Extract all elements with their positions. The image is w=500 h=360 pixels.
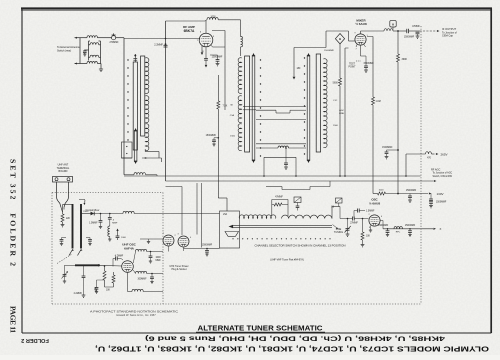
capacitor 1500MMF lower right [382, 147, 399, 159]
tube V6 OSC [369, 198, 380, 226]
capacitor UHF 3 [95, 280, 99, 294]
coil osc plate [133, 249, 163, 266]
svg-text:POINT: POINT [348, 67, 356, 69]
channel strip 1 slug arrow [133, 130, 135, 162]
label RF AMP 6BK7A [183, 25, 195, 33]
svg-text:1000: 1000 [210, 16, 216, 18]
tube V1 cathode ground [201, 46, 204, 55]
svg-text:47MMF: 47MMF [412, 26, 420, 28]
feedthrough 47MMF [412, 26, 420, 38]
svg-text:RF AGC: RF AGC [431, 168, 441, 171]
wire antenna vertical [79, 38, 81, 64]
tuned line bars [63, 200, 86, 249]
svg-text:Plug & Socket: Plug & Socket [171, 268, 186, 271]
channel strip 2 coil [238, 58, 242, 151]
feedthrough to heater [116, 229, 127, 241]
wire AGC to selector box [218, 198, 227, 211]
twin lead wires [57, 182, 69, 212]
svg-text:27MMF: 27MMF [350, 222, 358, 224]
capacitor 1500MMF mixer cathode [361, 56, 375, 72]
coil UHF mixer output [108, 226, 112, 241]
svg-text:10K: 10K [106, 290, 111, 292]
label UHF OSC 6AF4A [122, 242, 136, 250]
svg-text:1.5MMF: 1.5MMF [89, 222, 98, 224]
channel strip 3 coil [323, 59, 327, 148]
svg-text:½ 6AU8: ½ 6AU8 [369, 202, 380, 206]
capacitor 27MMF osc grid [340, 207, 369, 225]
coil L1B bottom [80, 62, 101, 64]
wire verticals to UHF tubes [166, 183, 202, 248]
label IF OUTPUT [442, 27, 457, 38]
wire mixer plate [361, 29, 399, 34]
tube V1 pin stub caps [204, 46, 208, 67]
svg-text:1500MMF: 1500MMF [436, 202, 447, 204]
labels near strip 3 [333, 100, 339, 127]
svg-text:1000: 1000 [156, 257, 162, 259]
capacitor 1500MMF osc out 2 [405, 225, 416, 237]
svg-text:CHANNEL SELECTOR SWITCH SHOWN: CHANNEL SELECTOR SWITCH SHOWN IN CHANNEL… [255, 243, 346, 247]
tube V4 UHF IF [162, 233, 176, 247]
svg-text:C1C: C1C [333, 100, 338, 102]
diode crystal mixer [82, 211, 124, 215]
stepped wire below strips [266, 181, 330, 190]
wire selector to osc [332, 207, 340, 228]
capacitor 1.5MMF [89, 214, 102, 229]
test point label [348, 61, 360, 69]
svg-text:Switch (rear): Switch (rear) [57, 50, 71, 53]
wire mixer grid link [211, 31, 226, 111]
capacitor 1500MMF uhf if [202, 245, 213, 256]
switch wafer box [122, 142, 133, 158]
wire osc top ground [140, 214, 163, 244]
resistor 1.0 meg [367, 37, 381, 182]
svg-text:7.5K: 7.5K [223, 106, 228, 108]
capacitor right of bars [86, 238, 92, 246]
junction dot grid [165, 38, 167, 40]
label to antenna switch [57, 46, 80, 52]
thick bus bar [75, 264, 99, 266]
svg-text:130V: 130V [437, 192, 444, 196]
svg-text:1500MMF: 1500MMF [405, 225, 416, 227]
svg-text:X: X [440, 227, 442, 231]
capacitor 300MMF [137, 273, 153, 284]
svg-text:TUNING: TUNING [334, 231, 343, 234]
wire osc output [380, 221, 441, 232]
tube V5 UHF IF [177, 234, 192, 248]
svg-text:TEST: TEST [349, 64, 355, 66]
label MIXER 1/2 6AU8 [355, 18, 367, 26]
tube V2 mixer [355, 34, 366, 45]
svg-text:6AF4A: 6AF4A [124, 246, 135, 250]
resistor 5600 mixer [333, 43, 342, 176]
wire AGC rail [166, 180, 437, 182]
feedthrough capacitor 270MMF [109, 33, 124, 44]
coil osc cathode [133, 270, 163, 274]
coil osc out [394, 227, 402, 234]
channel strip 2 coil form [245, 56, 250, 152]
coil plate choke [241, 37, 243, 57]
capacitor antenna + ground [83, 50, 89, 57]
shorting contacts [69, 249, 82, 256]
capacitor 1500MMF at 130V [406, 190, 417, 202]
svg-text:C99A Cap: C99A Cap [442, 35, 454, 38]
svg-text:300MMF: 300MMF [137, 278, 147, 280]
svg-text:1500MMF: 1500MMF [206, 135, 217, 137]
svg-text:L5A: L5A [223, 213, 228, 216]
svg-text:SET 352 FOLDER 2: SET 352 FOLDER 2 [9, 159, 18, 266]
bus pair below strips [243, 107, 256, 110]
UHF terminal strip [53, 177, 73, 183]
svg-text:BOARD: BOARD [59, 170, 68, 173]
svg-text:(UHF-VHF Tuner Part #94-97A): (UHF-VHF Tuner Part #94-97A) [270, 258, 304, 261]
svg-text:1500MMF: 1500MMF [406, 190, 417, 192]
svg-text:1000: 1000 [379, 190, 385, 192]
capacitor 1500MMF AGC [206, 135, 219, 146]
ladder wires between strips [256, 107, 306, 177]
label RF AGC [431, 168, 453, 178]
coil mixer link [124, 173, 157, 176]
wire mixer box [326, 31, 355, 48]
svg-text:RFC: RFC [396, 232, 401, 234]
svg-text:2.2MMF: 2.2MMF [74, 293, 83, 295]
capacitor 2.2MMF on grid line [154, 43, 167, 47]
svg-text:22K: 22K [66, 218, 71, 220]
channel strip 1 coil [145, 58, 149, 151]
channel strip 1 trimmer [133, 54, 137, 62]
selector top risers [272, 200, 288, 217]
capacitor pair 1500MMF below 130V [429, 194, 447, 208]
variable capacitor fine tuning [345, 218, 351, 237]
trimmer box C osc [331, 198, 342, 209]
resistor 10K osc [361, 218, 371, 247]
IF output arrow [420, 30, 440, 32]
svg-text:ALTERNATE TUNER SCHEMATIC: ALTERNATE TUNER SCHEMATIC [198, 324, 324, 333]
capacitor mid ladder + ground [284, 147, 288, 169]
junction square [98, 264, 100, 266]
svg-text:A PHOTOFACT STANDARD NOTATION: A PHOTOFACT STANDARD NOTATION SCHEMATIC [90, 310, 179, 314]
wire RF grid rail [124, 38, 200, 40]
svg-text:1500MMF: 1500MMF [378, 225, 389, 227]
resistor 390K [397, 31, 408, 195]
svg-text:AGC: AGC [339, 109, 344, 112]
tube V6 pins [368, 214, 383, 229]
wire mixer input rail [293, 48, 326, 80]
svg-text:OLYMPIC MODELS 1CD73, U, 1CD74: OLYMPIC MODELS 1CD73, U, 1CD74, U, 1KD81… [95, 345, 489, 352]
tube V2 pins [354, 33, 368, 57]
coil L1A top [80, 36, 112, 38]
trimmer capacitor UHF [62, 265, 76, 283]
svg-text:5600: 5600 [333, 83, 339, 85]
channel strip 1 coil form [133, 56, 145, 150]
svg-text:1500: 1500 [230, 136, 236, 138]
tube V1 RF AMP 6BK7A [199, 21, 213, 47]
svg-text:1500MMF: 1500MMF [404, 37, 415, 39]
svg-text:LINE: LINE [339, 113, 344, 115]
svg-text:1500MMF: 1500MMF [363, 63, 374, 65]
resistor 7.5K AGC dropper [217, 75, 228, 198]
wire wafer stub [122, 157, 133, 159]
svg-text:FOLDER 2: FOLDER 2 [21, 337, 49, 343]
balun coils [89, 41, 101, 64]
wire osc grid [99, 264, 122, 267]
coil series to L5A [123, 211, 220, 213]
svg-text:To Junction of AGC: To Junction of AGC [433, 172, 453, 175]
wire plate rail top [166, 18, 241, 37]
svg-text:B: B [339, 37, 341, 41]
svg-text:390K: 390K [402, 58, 408, 61]
diamond test point B [335, 34, 344, 44]
label C1A [230, 105, 236, 138]
channel strip 3 coil form [316, 54, 320, 152]
label UHF tuner power plug [169, 265, 188, 271]
svg-text:1500MMF: 1500MMF [202, 245, 213, 247]
svg-text:1.5MMF: 1.5MMF [366, 211, 375, 213]
svg-text:MMF: MMF [156, 260, 162, 262]
osc cathode ground [369, 225, 372, 232]
capacitor IF output coupling [398, 29, 416, 33]
capacitor 2.2MMF UHF [74, 265, 86, 298]
svg-text:1500MMF: 1500MMF [382, 147, 393, 149]
svg-text:Switch, C99 & R99: Switch, C99 & R99 [433, 175, 453, 178]
wire strip1 bottom [145, 149, 159, 158]
svg-text:10K: 10K [366, 236, 371, 238]
svg-text:4KH85, U, 4KH86, U (Ch. DD, DD: 4KH85, U, 4KH86, U (Ch. DD, DDU, DH, DHU… [145, 335, 445, 342]
svg-text:½ 6AU8: ½ 6AU8 [355, 22, 367, 26]
resistor osc 2 [112, 272, 115, 287]
tube V3 UHF OSC [122, 261, 134, 273]
svg-text:1500MMF: 1500MMF [324, 50, 335, 52]
coil osc heater [128, 272, 164, 291]
rotor wiper trapezoid [225, 232, 239, 237]
wire VHF box right edge [345, 48, 349, 176]
switch dots column 3 [304, 57, 305, 154]
selector coil large section [282, 215, 332, 218]
svg-text:Howard W. Sams & Co., Inc. 195: Howard W. Sams & Co., Inc. 1957 [116, 313, 156, 317]
svg-text:47MMF: 47MMF [275, 197, 283, 199]
label AGC LINE [339, 109, 344, 115]
wire grid vertical [165, 21, 167, 181]
alignment marker M [390, 21, 396, 30]
capacitor 1500MMF osc out 1 [378, 225, 390, 237]
label UHF ANT TERMINAL BOARD [57, 164, 70, 174]
capacitor 1000MMF osc plate [149, 251, 162, 263]
svg-text:4.7MMF: 4.7MMF [115, 255, 124, 257]
capacitor .5MMF [108, 214, 118, 227]
switch dots column 2 [260, 59, 261, 156]
channel strip 3 slug arrow [306, 55, 308, 161]
svg-text:1.0M: 1.0M [376, 101, 381, 103]
svg-text:1000: 1000 [121, 237, 127, 239]
svg-text:MMF: MMF [112, 222, 118, 224]
svg-text:6BK7A: 6BK7A [184, 29, 195, 33]
capacitor 4.7MMF osc [113, 255, 124, 266]
wire B+ rail [124, 175, 421, 177]
switch contact dots column 1 [127, 59, 128, 140]
mechanical link dashed [57, 254, 72, 264]
svg-text:2.2MMF: 2.2MMF [154, 43, 163, 46]
junction dots on B+ rail [263, 175, 407, 177]
switch position ticks [232, 238, 330, 239]
svg-text:270MMF: 270MMF [109, 42, 119, 44]
svg-text:PAGE 11: PAGE 11 [9, 306, 18, 333]
selector coil small section [239, 215, 276, 219]
wire arrow mid [142, 157, 162, 162]
wire tube outputs [169, 246, 220, 252]
channel strip 2 slug arrow [251, 55, 253, 161]
130V feed [373, 181, 444, 196]
label fine tuning [333, 225, 344, 235]
ground below balun [99, 64, 103, 72]
svg-text:1500: 1500 [333, 125, 339, 127]
capacitor 1500MMF screen [210, 55, 223, 66]
switch shaft arrow [229, 225, 333, 228]
inductor box L5A [220, 211, 240, 248]
resistor UHF ant [61, 205, 71, 227]
tube V1 pin numbers [197, 32, 215, 54]
trimmer box selector [294, 197, 301, 211]
265V feed [406, 152, 448, 176]
resistor osc grid leak [103, 265, 111, 291]
svg-text:265V: 265V [441, 153, 448, 157]
capacitor left of bars [60, 238, 66, 246]
dashed enclosure UHF tuner [52, 26, 421, 304]
grounds osc bottom [94, 280, 113, 291]
wire VHF box left edge [123, 38, 125, 175]
capacitor 1.5MMF osc [354, 209, 375, 219]
svg-text:C1A: C1A [230, 114, 235, 117]
antenna terminal arrows [75, 37, 81, 65]
